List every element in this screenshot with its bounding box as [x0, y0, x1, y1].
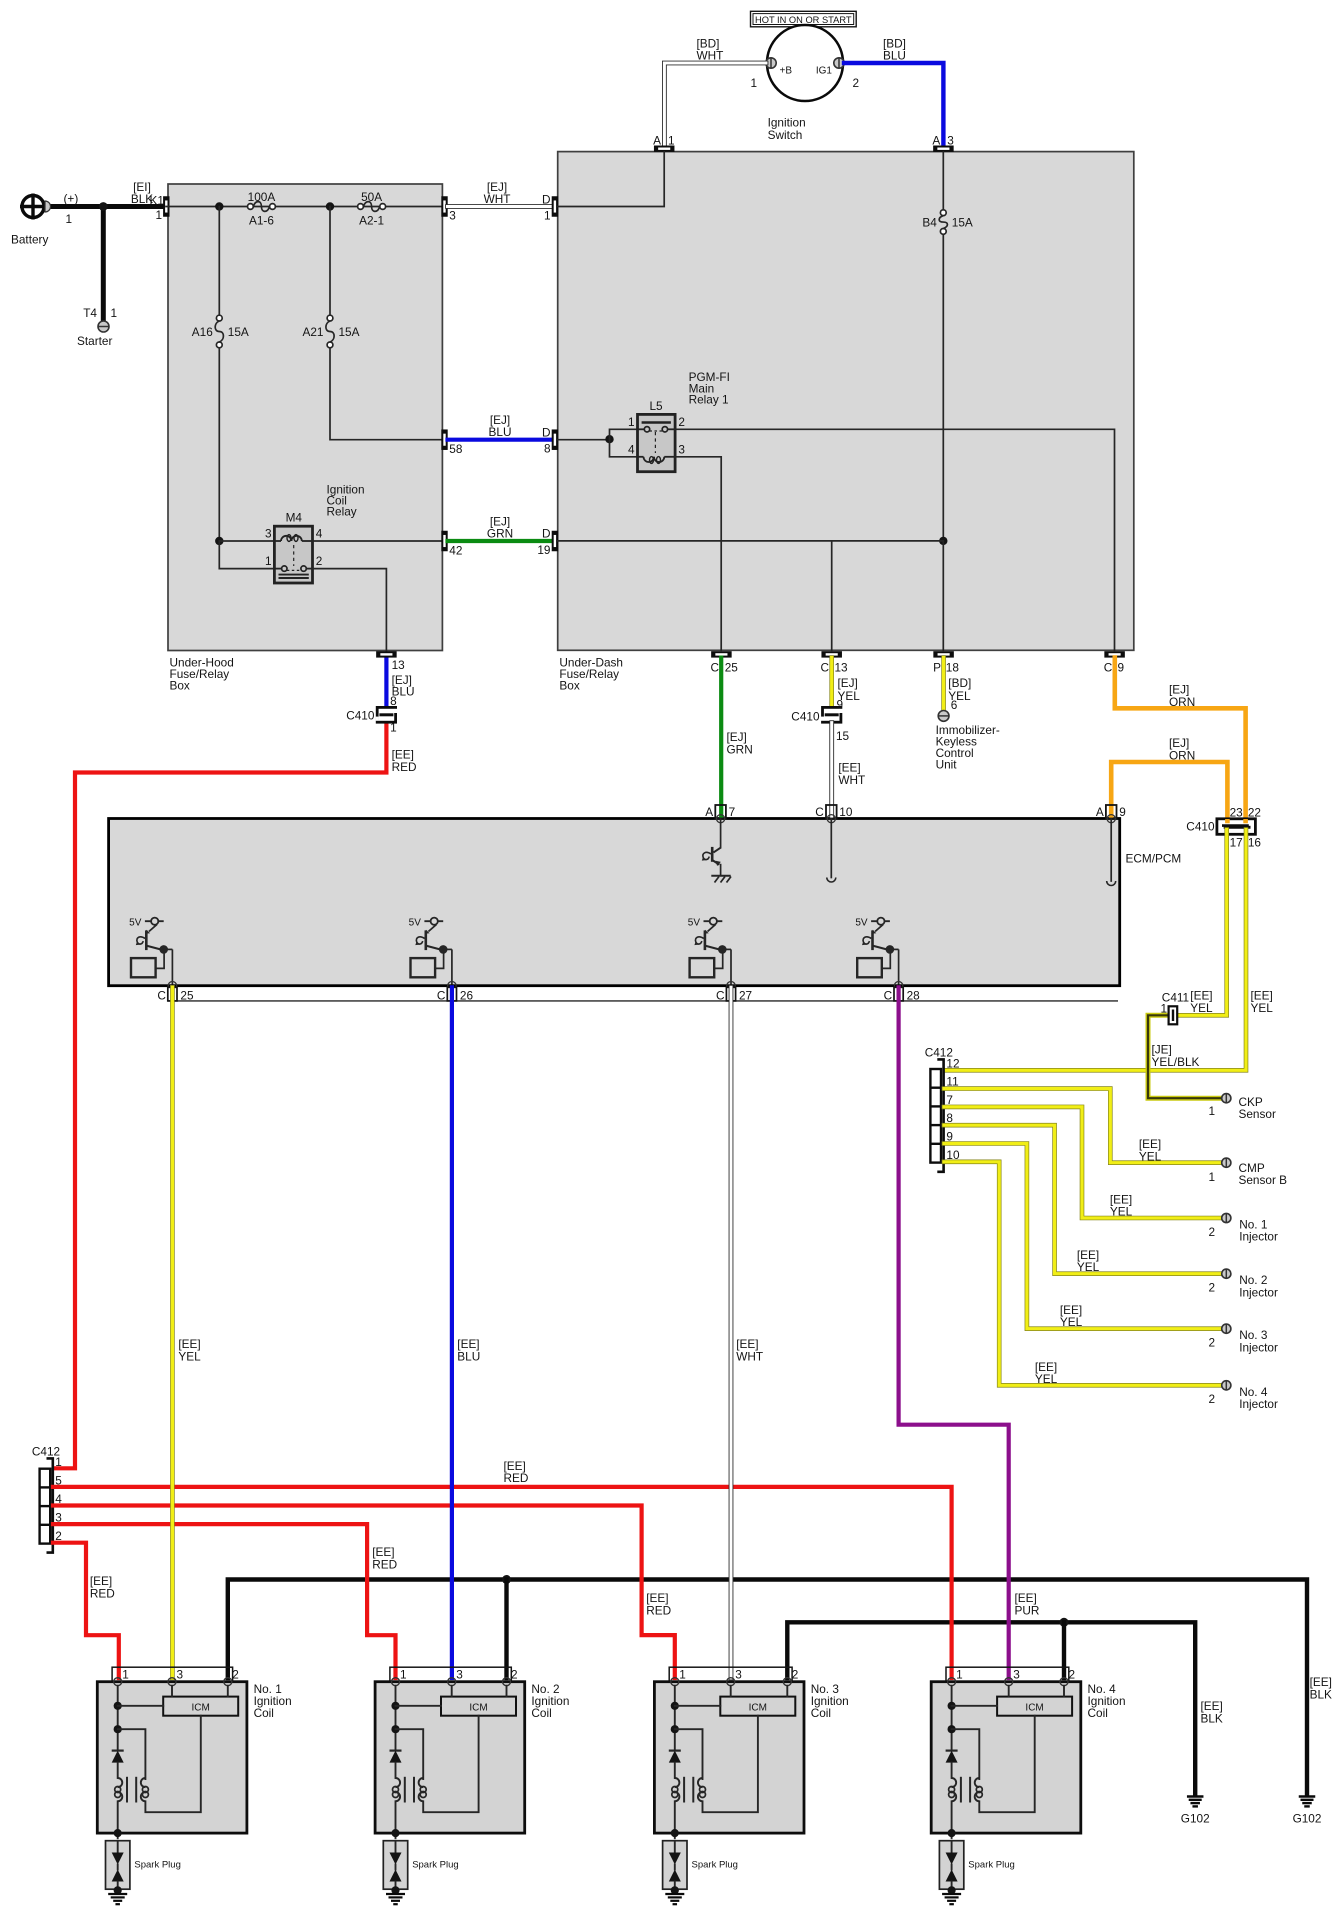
svg-text:Box: Box [170, 679, 190, 693]
connector C410 pins 23/22/17/16 [1186, 806, 1261, 850]
svg-text:50A: 50A [361, 190, 382, 204]
svg-text:Sensor B: Sensor B [1239, 1173, 1288, 1187]
svg-text:C410: C410 [346, 709, 375, 723]
label No. 4 Injector [1208, 1385, 1278, 1411]
svg-text:BLK: BLK [1201, 1712, 1223, 1726]
svg-text:BLK: BLK [1310, 1688, 1332, 1702]
CMP sensor B terminal [1222, 1158, 1231, 1167]
svg-text:58: 58 [449, 442, 463, 456]
svg-text:1: 1 [628, 415, 635, 429]
svg-text:P: P [933, 661, 941, 675]
label [EE] YEL (No. 1 injector) [1110, 1193, 1133, 1219]
svg-text:Coil: Coil [531, 1706, 551, 1720]
starter terminal T4 [98, 321, 109, 332]
svg-text:C: C [157, 989, 166, 1003]
wire main bus in under-hood box [166, 206, 445, 208]
svg-text:7: 7 [729, 805, 736, 819]
label D 8 [542, 426, 551, 456]
label A 3 (top) [932, 134, 954, 148]
wire [EE] RED C412 pin 3 to No.2 coil pin 1 [53, 1524, 396, 1678]
wire junction to L5 pin 4 [610, 439, 638, 457]
svg-text:C: C [820, 661, 829, 675]
wire A16 branch upper [218, 207, 220, 316]
wire [EJ] BLU connector13 to C410 [384, 658, 388, 707]
svg-text:A1-6: A1-6 [249, 214, 274, 228]
svg-text:A: A [705, 805, 713, 819]
svg-text:T4: T4 [83, 306, 97, 320]
wire [EE] WHT C27 to No.3 coil pin 3 [729, 987, 734, 1678]
svg-text:ORN: ORN [1169, 695, 1195, 709]
label [EJ] GRN [487, 515, 513, 541]
connector D1 (under-dash box left edge) [552, 196, 558, 217]
svg-text:ICM: ICM [1025, 1702, 1043, 1713]
label [EE] BLK (left) [1201, 1699, 1223, 1726]
connector P18 (under-dash box bottom) [933, 651, 954, 657]
svg-text:RED: RED [646, 1604, 671, 1618]
connector A9 (ECM top) [1096, 805, 1126, 823]
svg-text:Injector: Injector [1239, 1230, 1278, 1244]
node bus junction A16 [215, 202, 223, 210]
svg-text:Injector: Injector [1239, 1340, 1278, 1354]
connector A7 (ECM top) [705, 805, 735, 823]
svg-text:13: 13 [392, 658, 406, 672]
svg-text:25: 25 [725, 661, 739, 675]
svg-text:28: 28 [907, 989, 921, 1003]
wire [JE] YEL/BLK C411 to CKP sensor [1148, 1015, 1221, 1098]
transistor at A7 inside ECM [702, 819, 731, 883]
svg-text:WHT: WHT [838, 773, 865, 787]
wire D19 net horizontal [558, 540, 943, 542]
wire [EE] RED C412 pin 2 to No.1 coil pin 1 [53, 1543, 119, 1678]
node B4 / D19 net junction [939, 537, 947, 545]
label Ignition Coil Relay [327, 483, 365, 519]
svg-text:1: 1 [544, 209, 551, 223]
fuse A21 15A [303, 315, 360, 348]
driver transistor for C25 (No.1 coil) [129, 918, 176, 990]
svg-text:5V: 5V [688, 918, 701, 929]
ECM connector strip line [168, 1000, 1118, 1002]
wire [EJ] YEL C13 to C410 [829, 658, 834, 707]
svg-text:2: 2 [853, 76, 860, 90]
wire bus2 to No.4 coil pin 2 [1062, 1622, 1066, 1678]
No. 3 injector terminal [1222, 1324, 1231, 1333]
svg-text:YEL: YEL [1035, 1372, 1058, 1386]
svg-text:WHT: WHT [697, 49, 724, 63]
svg-text:BLU: BLU [489, 425, 512, 439]
connector C27 pin (ECM bottom) [716, 987, 752, 1002]
spark plug 2 [383, 1841, 458, 1895]
ignition switch terminal IG1 [834, 58, 844, 68]
fuse A16 15A [192, 315, 249, 348]
svg-text:G102: G102 [1293, 1812, 1322, 1826]
wire [EE] RED C412 pin 5 to No.4 coil pin 1 [53, 1487, 952, 1678]
svg-text:IG1: IG1 [816, 66, 833, 77]
svg-text:3: 3 [678, 442, 685, 456]
svg-text:100A: 100A [248, 190, 276, 204]
svg-text:BLU: BLU [457, 1350, 480, 1364]
svg-text:D: D [542, 193, 551, 207]
connector K1 pin 1 (under-hood box) [163, 196, 169, 217]
wire [EJ] GRN C25 to A7 [719, 658, 723, 817]
wire [EE] PUR C28 to No.4 coil pin 3 [899, 987, 1009, 1678]
svg-text:BLU: BLU [883, 49, 906, 63]
svg-text:ICM: ICM [749, 1702, 767, 1713]
svg-text:9: 9 [1118, 661, 1125, 675]
svg-text:YEL: YEL [1190, 1001, 1213, 1015]
label P 18 (box bottom) [933, 661, 959, 675]
wire battery positive feed (thick) [45, 204, 166, 209]
svg-text:5V: 5V [409, 918, 422, 929]
svg-text:1: 1 [265, 554, 272, 568]
svg-text:YEL: YEL [1251, 1001, 1274, 1015]
hot in on or start box [751, 11, 857, 26]
connector C410 pin 9/15 [821, 707, 843, 722]
connector 13 (under-hood box bottom) [376, 651, 397, 657]
svg-text:Spark Plug: Spark Plug [692, 1860, 738, 1871]
svg-text:Switch: Switch [768, 128, 803, 142]
svg-text:1: 1 [679, 1668, 686, 1682]
wire M4 pin 2 to connector 13 [313, 569, 387, 651]
ground under spark plug 4 [942, 1894, 961, 1904]
svg-text:B4: B4 [922, 216, 937, 230]
label [BD] WHT [697, 37, 724, 63]
svg-text:D: D [542, 527, 551, 541]
connector C13 (under-dash box bottom) [821, 651, 842, 657]
svg-text:Injector: Injector [1239, 1285, 1278, 1299]
label [EE] RED (pin 3 run) [372, 1545, 397, 1572]
svg-text:16: 16 [1248, 836, 1262, 850]
wire stub from C10 inside ECM [827, 819, 836, 882]
label C411 / [EE] YEL at C411 [1160, 989, 1213, 1016]
svg-text:2: 2 [678, 415, 685, 429]
connector 58 (under-hood box right edge) [441, 429, 447, 450]
label [EE] BLK (right) [1310, 1675, 1332, 1702]
svg-text:1: 1 [55, 1455, 62, 1469]
svg-text:15A: 15A [339, 325, 360, 339]
label [JE] YEL/BLK [1152, 1043, 1200, 1070]
svg-text:5V: 5V [129, 918, 142, 929]
labels 13 [EJ] BLU 8 1 at C410 left [390, 658, 414, 735]
fuse B4 15A [922, 210, 973, 235]
connector C10 (ECM top) [815, 805, 853, 823]
svg-text:Relay: Relay [327, 505, 357, 519]
label [EJ] ORN (upper) [1169, 683, 1195, 709]
label D 1 [542, 193, 551, 223]
label [EE] YEL (CMP) [1139, 1137, 1162, 1164]
wire [EJ] GRN between boxes [448, 539, 552, 543]
svg-text:Box: Box [559, 679, 579, 693]
svg-text:3: 3 [177, 1668, 184, 1682]
label No. 3 Injector [1208, 1328, 1278, 1354]
svg-text:26: 26 [460, 989, 474, 1003]
No. 2 injector terminal [1222, 1269, 1231, 1278]
wire [EE] YEL to No. 3 injector [944, 1144, 1221, 1329]
wire A16 branch lower [218, 348, 220, 541]
svg-text:1: 1 [66, 212, 73, 226]
label [EJ] BLU [489, 413, 512, 439]
under-dash fuse/relay box [558, 152, 1134, 693]
svg-text:4: 4 [316, 527, 323, 541]
label C 9 (box bottom) [1104, 661, 1124, 675]
svg-text:1: 1 [750, 76, 757, 90]
svg-text:C: C [437, 989, 446, 1003]
svg-text:A16: A16 [192, 325, 213, 339]
wire [EE] RED C412 pin 4 to No.3 coil pin 1 [53, 1506, 675, 1679]
label [EE] YEL (C25 drop) [178, 1337, 201, 1364]
label No. 3 Ignition Coil [811, 1682, 849, 1720]
svg-text:Starter: Starter [77, 334, 112, 348]
svg-text:1: 1 [956, 1668, 963, 1682]
svg-text:Coil: Coil [811, 1706, 831, 1720]
svg-text:8: 8 [544, 442, 551, 456]
node bus2 coil4 tap [1060, 1618, 1069, 1627]
svg-text:18: 18 [946, 661, 960, 675]
label [EE] BLU (C26 drop) [457, 1337, 480, 1364]
svg-text:1: 1 [155, 208, 162, 222]
wire junction down to P18 [942, 541, 944, 650]
wire [BD] WHT ignition switch to A1 [664, 63, 766, 144]
label [BD] BLU [883, 37, 906, 63]
spark plug 1 [106, 1841, 181, 1895]
label D 19 [537, 527, 550, 558]
wire A21 branch lower [330, 348, 442, 440]
svg-text:2: 2 [232, 1668, 239, 1682]
svg-text:+B: +B [780, 66, 793, 77]
svg-text:2: 2 [511, 1668, 518, 1682]
immobilizer terminal 6 [938, 711, 949, 722]
ground under spark plug 1 [108, 1894, 127, 1904]
battery [11, 192, 78, 247]
label No. 1 Injector [1208, 1218, 1278, 1244]
connector C411 [1169, 1006, 1178, 1024]
svg-text:G102: G102 [1181, 1812, 1210, 1826]
svg-text:A2-1: A2-1 [359, 214, 384, 228]
connector C9 (under-dash box bottom) [1104, 651, 1125, 657]
svg-text:YEL: YEL [1110, 1205, 1133, 1219]
label C 13 (box bottom) [820, 661, 848, 675]
svg-text:17: 17 [1230, 836, 1243, 850]
spark plug 4 [939, 1841, 1014, 1895]
driver transistor for C26 (No.2 coil) [409, 918, 456, 990]
svg-text:19: 19 [537, 543, 550, 557]
svg-text:2: 2 [1208, 1281, 1215, 1295]
svg-text:C410: C410 [791, 709, 820, 723]
svg-text:25: 25 [180, 989, 194, 1003]
label CMP Sensor B [1208, 1161, 1287, 1187]
svg-text:Battery: Battery [11, 233, 48, 247]
svg-text:L5: L5 [649, 399, 663, 413]
wire junction to L5 pin 1 [610, 429, 638, 439]
label [EI] BLK / K1 / 1 [131, 180, 164, 222]
svg-text:23: 23 [1230, 806, 1244, 820]
svg-text:WHT: WHT [484, 192, 511, 206]
svg-text:8: 8 [390, 694, 397, 708]
driver transistor for C28 (No.4 coil) [855, 918, 902, 990]
svg-text:A: A [1096, 805, 1104, 819]
ignition coil No. 2 [375, 1667, 525, 1838]
svg-text:[BD]: [BD] [948, 676, 971, 690]
node bus junction A21 [326, 202, 334, 210]
wire [EE] RED C410 to C412 pin 1 [55, 723, 386, 1469]
svg-text:WHT: WHT [736, 1350, 763, 1364]
svg-text:15A: 15A [228, 325, 249, 339]
svg-text:Spark Plug: Spark Plug [968, 1860, 1014, 1871]
svg-text:Spark Plug: Spark Plug [134, 1860, 180, 1871]
svg-text:C: C [716, 989, 725, 1003]
svg-text:2: 2 [1208, 1336, 1215, 1350]
label PGM-FI Main Relay 1 [689, 370, 730, 407]
label 6 and immobilizer-keyless control unit [936, 698, 1000, 772]
svg-text:1: 1 [122, 1668, 129, 1682]
label [EE] WHT (drop) [838, 761, 865, 788]
svg-text:1: 1 [668, 134, 675, 148]
svg-text:C410: C410 [1186, 820, 1215, 834]
svg-text:D: D [542, 426, 551, 440]
svg-text:2: 2 [792, 1668, 799, 1682]
label [EE] PUR [1015, 1591, 1040, 1618]
svg-text:RED: RED [392, 760, 417, 774]
connector C28 pin (ECM bottom) [884, 987, 921, 1002]
connector C25 pin (ECM bottom) [157, 987, 194, 1002]
wire [EE] YEL C410 pin 16 down [946, 830, 1246, 1071]
wire [EE] YEL to No. 2 injector [944, 1125, 1221, 1274]
wire M4 pin 4 to connector 42 [313, 540, 442, 542]
svg-text:4: 4 [628, 442, 635, 456]
svg-text:HOT IN ON OR START: HOT IN ON OR START [755, 15, 852, 25]
svg-text:3: 3 [1013, 1668, 1020, 1682]
label [EJ] ORN (lower) [1169, 736, 1195, 762]
label No. 1 Ignition Coil [254, 1682, 292, 1720]
svg-text:[EJ]: [EJ] [838, 676, 858, 690]
svg-text:PUR: PUR [1015, 1604, 1040, 1618]
connector D19 (under-dash box left edge) [552, 531, 558, 552]
svg-text:3: 3 [449, 209, 456, 223]
svg-text:13: 13 [835, 661, 849, 675]
spark plug 3 [663, 1841, 738, 1895]
svg-text:RED: RED [372, 1558, 397, 1572]
wire [BD] BLU ignition switch to A3 [844, 63, 943, 144]
wire [EE] WHT C410 to C10 [829, 723, 834, 817]
wire [BD] YEL P18 to immobilizer [941, 658, 946, 710]
svg-text:Coil: Coil [1088, 1706, 1108, 1720]
connector 42 (under-hood box right edge) [441, 531, 447, 552]
under-hood fuse/relay box [168, 184, 442, 693]
ground under spark plug 2 [386, 1894, 405, 1904]
label [EJ] WHT [484, 180, 511, 206]
label [EE] YEL (No. 4 injector) [1035, 1360, 1058, 1386]
svg-text:GRN: GRN [727, 743, 753, 757]
wire L5 pin 2 to C9 [675, 429, 1114, 650]
label [EE] WHT (C27 drop) [736, 1337, 763, 1364]
relay M4 (ignition coil relay) [274, 526, 312, 583]
ground G102 (left) [1181, 1797, 1210, 1826]
ground G102 (right) [1293, 1797, 1322, 1826]
wire to M4 pin 1 [219, 541, 274, 569]
svg-text:ECM/PCM: ECM/PCM [1126, 852, 1182, 866]
label No. 2 Injector [1208, 1273, 1278, 1299]
svg-text:YEL: YEL [1060, 1315, 1083, 1329]
label A 1 (top) [653, 134, 674, 148]
connector 3 (under-hood box right edge) [441, 196, 447, 217]
ground under spark plug 3 [665, 1894, 684, 1904]
node A16 to relay M4 [215, 537, 223, 545]
label [EJ] GRN (drop) [727, 730, 753, 757]
label C 25 (box bottom) [710, 661, 738, 675]
label CKP Sensor [1208, 1095, 1276, 1121]
ignition switch [767, 25, 843, 142]
svg-text:22: 22 [1248, 806, 1261, 820]
wire [EE] BLK bus 2 [787, 1622, 1195, 1794]
label [EE] YEL (No. 3 injector) [1060, 1303, 1083, 1329]
wire A3 to fuse B4 [942, 152, 944, 210]
svg-text:9: 9 [1119, 805, 1126, 819]
wire A1 to D1 inside under-dash box [558, 152, 664, 207]
wire [EJ] ORN A9 to C410 pin 23 [1111, 762, 1227, 822]
wire D8 into box [558, 439, 610, 441]
wire to M4 pin 3 [219, 540, 274, 542]
label No. 4 Ignition Coil [1088, 1682, 1126, 1720]
ignition coil No. 4 [931, 1667, 1081, 1838]
svg-text:2: 2 [1208, 1225, 1215, 1239]
svg-text:RED: RED [90, 1587, 115, 1601]
node bus1 coil2 tap [502, 1575, 511, 1584]
wire [EJ] ORN C9 to C410 pin 22 [1115, 658, 1246, 822]
wire battery to starter [101, 207, 106, 322]
svg-text:12: 12 [946, 1056, 959, 1070]
svg-text:3: 3 [947, 134, 954, 148]
svg-text:6: 6 [951, 698, 958, 712]
fuse 50A A2-1 [358, 190, 386, 228]
svg-text:1: 1 [1208, 1104, 1215, 1118]
svg-text:42: 42 [449, 544, 462, 558]
wire [EE] YEL C25 to No.1 coil pin 3 [170, 987, 175, 1678]
svg-text:M4: M4 [286, 511, 303, 525]
svg-text:5V: 5V [855, 918, 868, 929]
label L5 and pins [628, 399, 685, 456]
wire branch down to C13 [831, 541, 833, 650]
svg-text:YEL: YEL [1077, 1260, 1100, 1274]
svg-text:A: A [932, 134, 940, 148]
label [EJ] YEL (C13 drop) [838, 676, 861, 703]
svg-text:27: 27 [739, 989, 752, 1003]
CKP sensor terminal [1222, 1094, 1231, 1103]
ignition coil No. 1 [97, 1667, 247, 1838]
svg-text:Relay 1: Relay 1 [689, 393, 729, 407]
svg-text:YEL: YEL [178, 1350, 201, 1364]
wire bus1 to No.2 coil pin 2 [504, 1580, 508, 1679]
labels C410 9 15 (left C410) [791, 698, 849, 744]
svg-text:3: 3 [456, 1668, 463, 1682]
svg-text:K1: K1 [150, 194, 164, 208]
svg-text:10: 10 [839, 805, 853, 819]
fuse 100A A1-6 [248, 190, 276, 228]
svg-text:(+): (+) [64, 192, 79, 206]
wire [EJ] WHT between boxes [448, 204, 552, 209]
svg-text:Unit: Unit [936, 758, 958, 772]
label [EE] YEL (No. 2 injector) [1077, 1248, 1100, 1274]
wire [EJ] BLU between boxes [448, 438, 552, 442]
svg-text:A: A [653, 134, 661, 148]
label [EE] RED (pin 5 run) [504, 1459, 529, 1485]
node L5 feed junction [605, 435, 613, 443]
svg-text:Coil: Coil [254, 1706, 274, 1720]
svg-text:Injector: Injector [1239, 1397, 1278, 1411]
svg-text:YEL: YEL [1139, 1150, 1162, 1164]
wire [EE] YEL to No. 1 injector [944, 1107, 1221, 1218]
svg-text:1: 1 [1208, 1170, 1215, 1184]
starter labels [77, 306, 117, 348]
ignition switch terminal +B [766, 58, 776, 68]
